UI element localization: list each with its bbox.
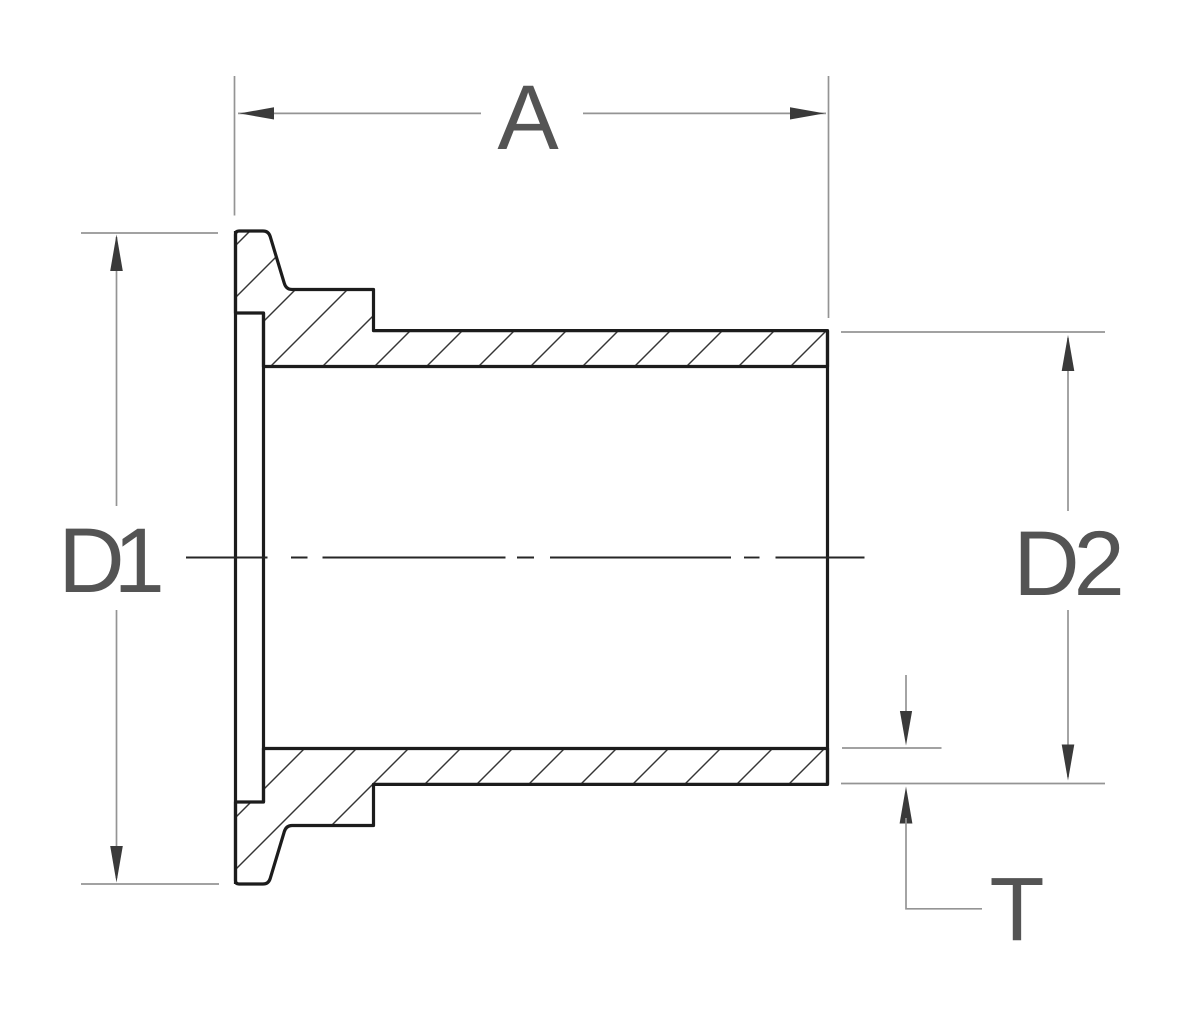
dimension D2 bottom arrowhead bbox=[1062, 745, 1075, 781]
dimension D2 line bbox=[1067, 338, 1069, 777]
dimension D1 top arrowhead bbox=[110, 235, 123, 272]
svg-text:D1: D1 bbox=[58, 510, 160, 612]
svg-text:A: A bbox=[497, 67, 559, 169]
dimension T lower arrowhead bbox=[900, 787, 913, 824]
recess bottom face line bbox=[262, 313, 265, 802]
dimension D2 extension line top bbox=[841, 331, 1105, 333]
ferrule lower wall cross-section (hatched) bbox=[236, 749, 828, 885]
dimension A left arrowhead bbox=[240, 107, 275, 119]
dimension A extension line left bbox=[234, 76, 236, 216]
dimension D2 top arrowhead bbox=[1062, 335, 1075, 371]
ferrule upper wall cross-section (hatched) bbox=[236, 231, 828, 367]
svg-text:D2: D2 bbox=[1013, 513, 1120, 615]
flange left face line bbox=[234, 231, 237, 884]
dimension A line bbox=[238, 112, 826, 114]
dimension T upper arrowhead bbox=[900, 711, 912, 746]
dimension D2 extension line bottom bbox=[841, 783, 1105, 785]
dimension T upper arrow line bbox=[905, 675, 907, 716]
dimension D1 extension line bottom bbox=[81, 883, 219, 885]
dimension D1 bottom arrowhead bbox=[110, 846, 123, 883]
dimension D1 line bbox=[116, 237, 118, 878]
dimension T extension line bbox=[842, 747, 942, 749]
dimension D1 extension line top bbox=[81, 232, 218, 234]
svg-text:T: T bbox=[990, 860, 1045, 960]
centerline bbox=[186, 557, 865, 559]
dimension A extension line right bbox=[828, 76, 830, 318]
dimension T leader line bbox=[906, 818, 982, 909]
dimension A right arrowhead bbox=[790, 107, 825, 119]
tube end face line bbox=[826, 331, 829, 785]
